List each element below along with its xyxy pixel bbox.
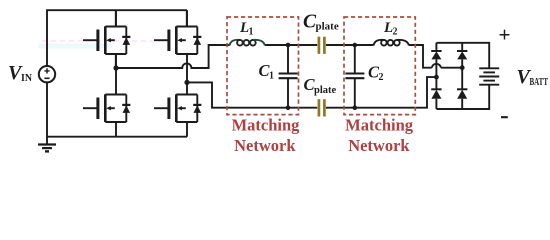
- wire: Q3 drain to node A: [115, 68, 117, 94]
- node: L1/C1 junction: [286, 43, 291, 48]
- node A (left leg midpoint): [113, 65, 118, 70]
- ground: [38, 145, 56, 152]
- svg-text:2: 2: [393, 27, 398, 38]
- wire: Q1 source to node A: [115, 54, 117, 68]
- transistor Q2 (high-side right): [154, 10, 201, 54]
- source V_IN: [39, 66, 55, 82]
- inductor L1: [230, 40, 265, 46]
- highlight artifact band: [38, 44, 112, 49]
- node: C2 top junction: [353, 43, 358, 48]
- wire: Q3 source to bottom rail: [115, 122, 117, 137]
- capacitor C1 plates: [279, 74, 298, 79]
- wire: Q1 drain to rail: [115, 10, 117, 26]
- bridge diode D3: [431, 89, 441, 98]
- capacitor C2 plates: [345, 74, 364, 79]
- svg-text:1: 1: [269, 71, 274, 82]
- wire: bridge right column: [461, 43, 463, 109]
- bridge diode D4: [457, 89, 467, 98]
- wire: C2 bottom lead: [354, 79, 356, 108]
- transistor Q3 (low-side left): [83, 94, 130, 122]
- transistor Q4 (low-side right): [154, 94, 201, 122]
- wire: C2 top lead: [354, 45, 356, 73]
- wire: Q4 source to bottom rail: [186, 122, 188, 137]
- bridge diode D1: [431, 51, 441, 59]
- svg-text:BATT: BATT: [530, 77, 549, 88]
- svg-text:1: 1: [249, 27, 254, 38]
- inductor L2: [374, 40, 409, 46]
- svg-text:Network: Network: [234, 136, 296, 155]
- svg-text:Matching: Matching: [232, 116, 301, 135]
- wire: Q4 drain to node B: [186, 82, 188, 94]
- wire: bridge bottom rail to battery: [436, 85, 489, 109]
- wire: bridge left column: [435, 43, 437, 109]
- node: C1 bottom junction: [286, 105, 291, 110]
- svg-text:plate: plate: [314, 85, 337, 96]
- hop over bridge left column: [432, 64, 441, 68]
- node: bridge right mid: [460, 65, 465, 70]
- capacitor C_plate bottom (gold): [319, 99, 325, 116]
- matching network box 1: [227, 17, 299, 115]
- capacitor C_plate top (gold): [319, 37, 325, 54]
- gate drive dashed line (magenta artifact): [42, 40, 167, 42]
- wire: C1 top lead: [287, 45, 289, 73]
- label - (battery): [501, 116, 508, 118]
- svg-text:+: +: [499, 23, 511, 47]
- node B (right leg midpoint): [184, 80, 189, 85]
- wire: bottom C_plate to bridge left column node: [326, 77, 437, 108]
- node: bridge left mid: [434, 75, 439, 80]
- svg-text:Matching: Matching: [345, 116, 414, 135]
- node: C2 bottom junction: [353, 105, 358, 110]
- svg-text:2: 2: [379, 72, 384, 83]
- wire: bottom rail: [47, 136, 187, 138]
- wire: top rail from Vin to right leg: [47, 10, 187, 66]
- wire: L2 to bridge right column node (with hop over left column): [409, 45, 462, 68]
- wire: C1 bottom lead: [287, 79, 289, 108]
- matching network box 2: [344, 17, 415, 115]
- wire: top C_plate to L2: [326, 44, 374, 46]
- wire: node A to matching network top (with hop over right leg): [116, 45, 230, 68]
- wire: Q2 source to node B: [186, 54, 188, 82]
- wire: bridge top rail to battery: [436, 43, 489, 68]
- svg-text:Network: Network: [348, 136, 410, 155]
- battery V_BATT: [479, 68, 499, 84]
- wire: node B to matching network bottom: [187, 82, 317, 107]
- wire: Q2 drain to rail: [186, 10, 188, 26]
- wire: Vin bottom to ground: [46, 82, 48, 144]
- bridge diode D2: [457, 51, 467, 59]
- wire: L1 to top C_plate: [265, 44, 317, 46]
- transistor Q1 (high-side left): [83, 10, 130, 68]
- svg-text:plate: plate: [316, 21, 339, 33]
- svg-text:IN: IN: [21, 73, 32, 84]
